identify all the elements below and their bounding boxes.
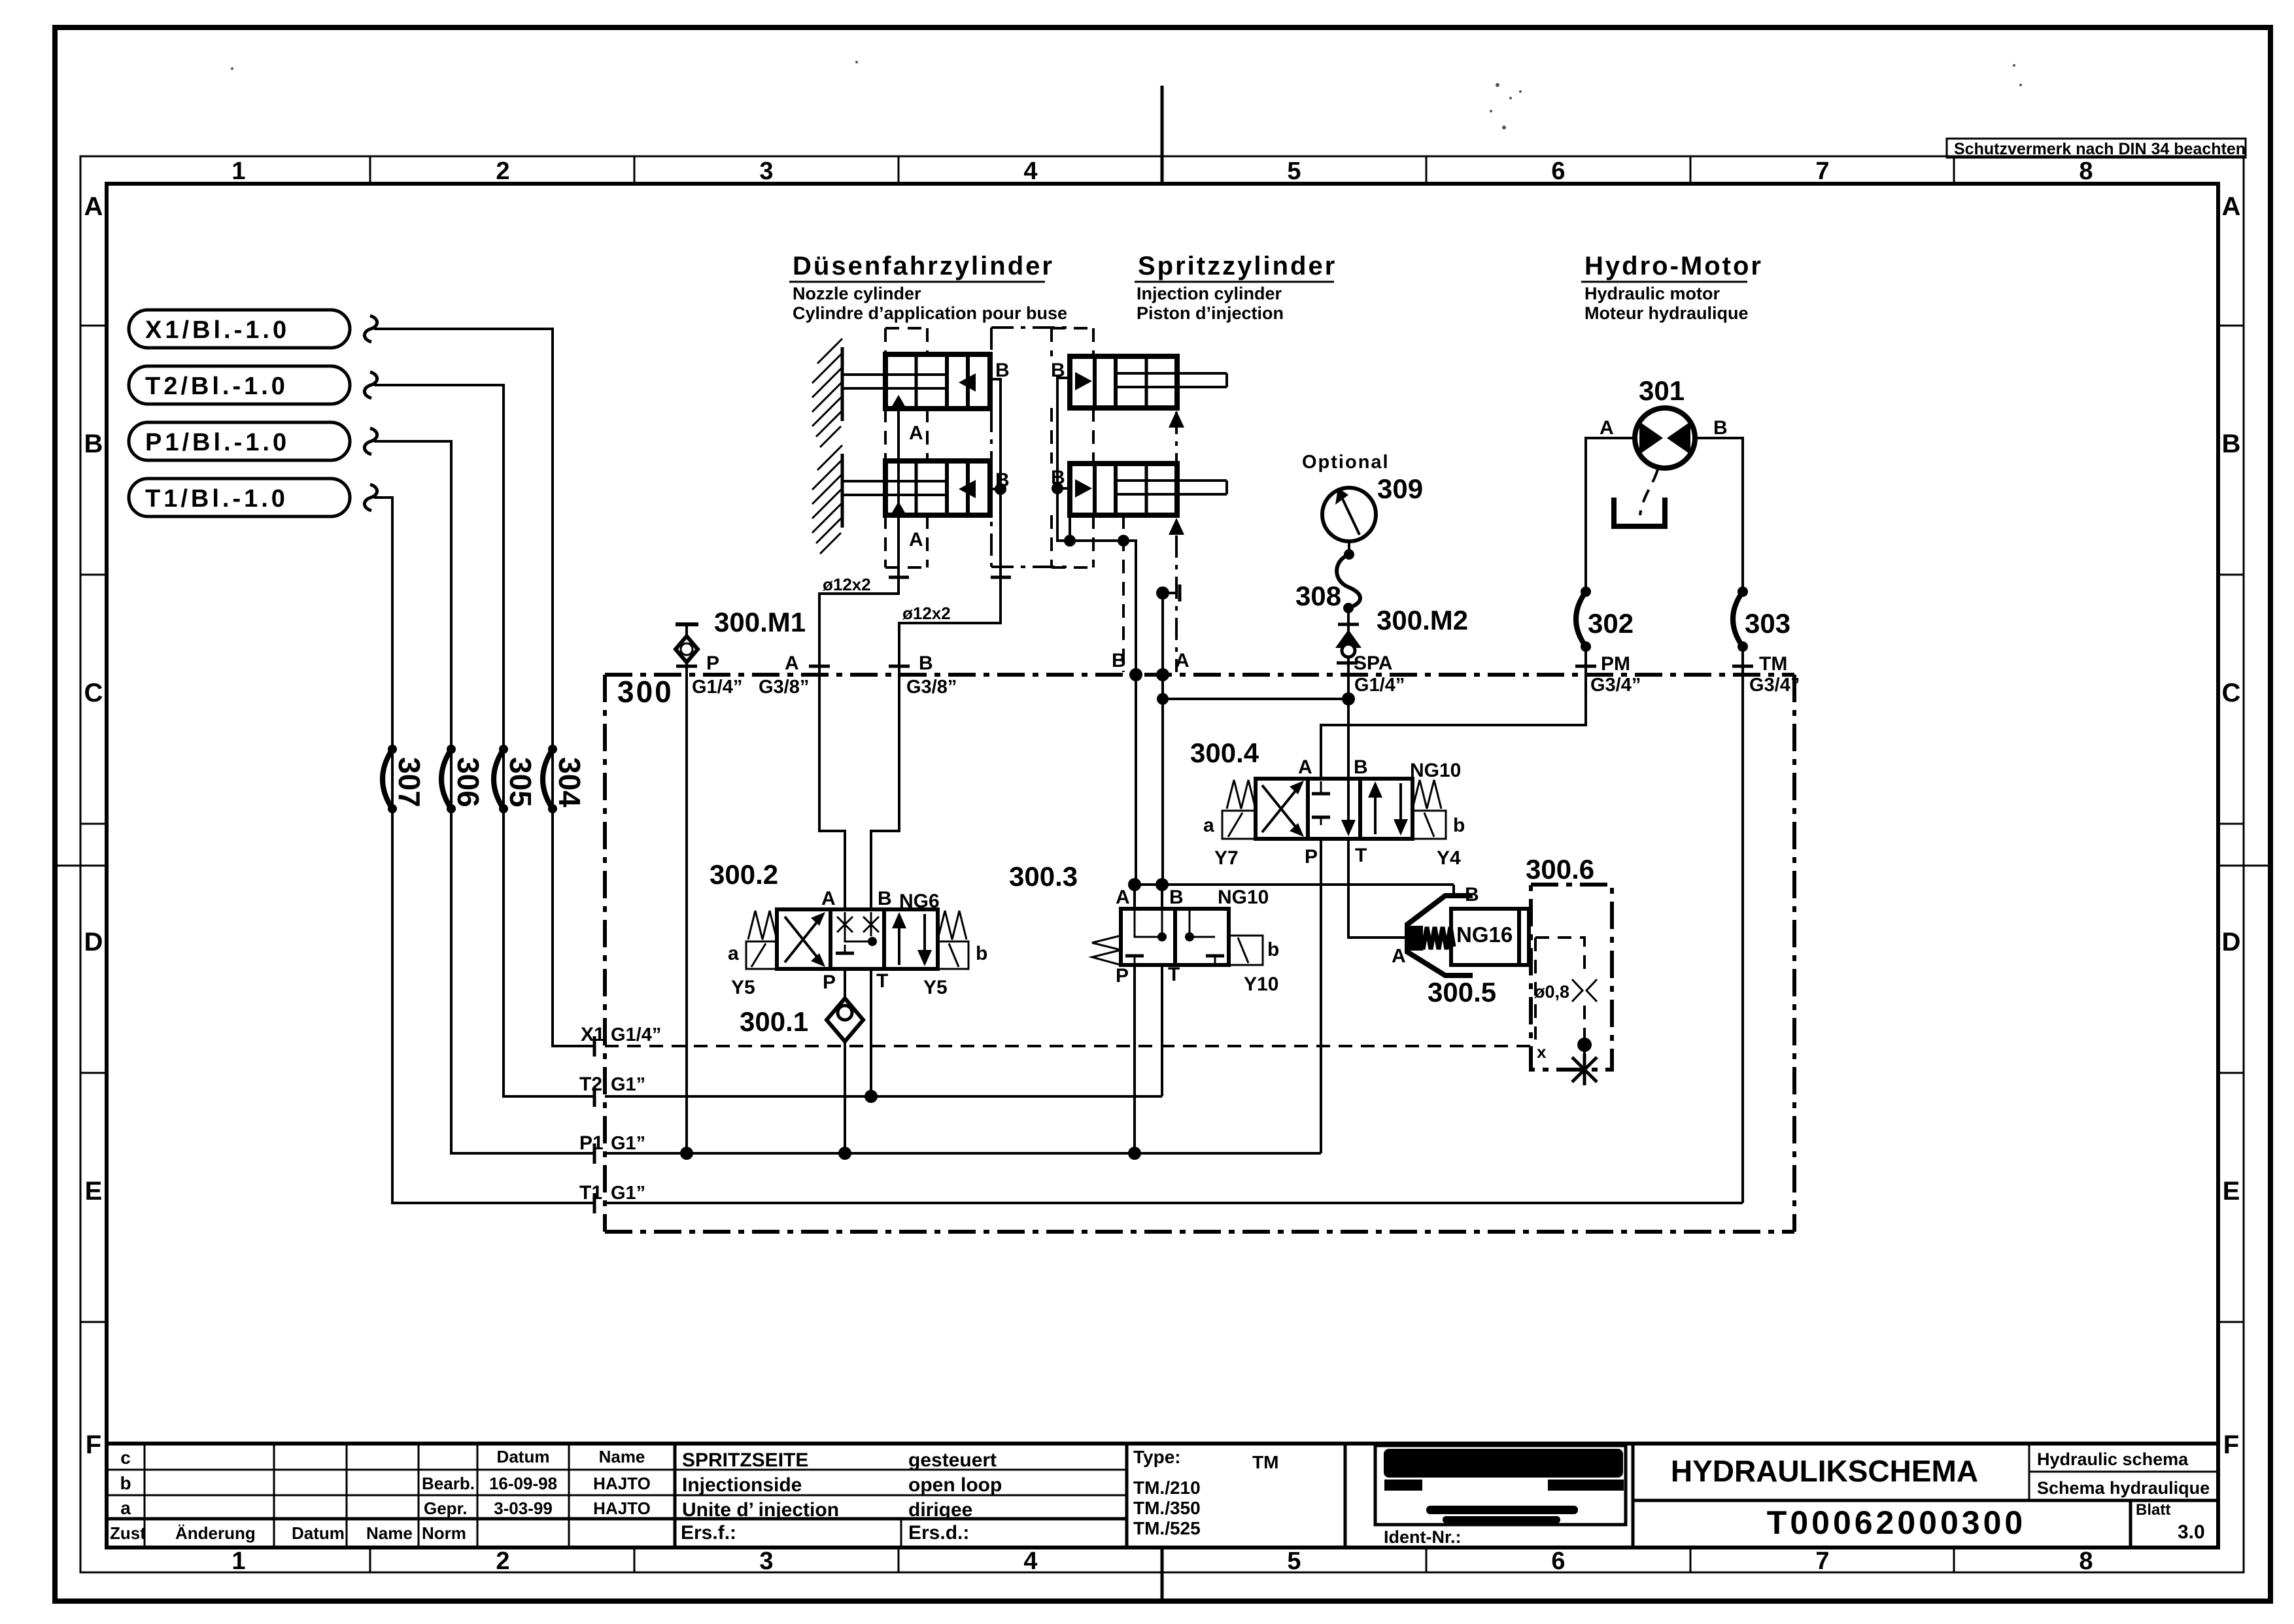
poppet outline 300.5 (1407, 896, 1473, 975)
svg-text:Ers.d.:: Ers.d.: (908, 1522, 969, 1544)
shut-off test valve 300.M1 (676, 622, 698, 626)
svg-text:ø12x2: ø12x2 (902, 603, 951, 623)
center marks (1161, 86, 1164, 184)
svg-text:Injectionside: Injectionside (682, 1474, 802, 1496)
svg-text:Y5: Y5 (731, 977, 755, 998)
port B injection side (1129, 668, 1142, 681)
body 300.5 (1451, 909, 1519, 965)
svg-text:Datum: Datum (292, 1523, 345, 1543)
wire gauge to hose (1348, 541, 1350, 554)
wire PM to valve A (1321, 675, 1586, 779)
svg-text:B: B (1051, 360, 1065, 381)
svg-text:A: A (1175, 650, 1190, 671)
plugged port symbol (1572, 1054, 1597, 1085)
wire 300.4 P to P1 rail (1320, 839, 1322, 1153)
port B (889, 665, 910, 668)
svg-text:A: A (1298, 756, 1312, 778)
wire 300.3 T to T2 rail (1161, 965, 1163, 1096)
node X1/Bl.-1.0 oval (129, 310, 350, 348)
svg-text:5: 5 (1287, 158, 1301, 185)
wire port A to valve A (819, 675, 845, 909)
svg-text:TM: TM (1759, 653, 1787, 675)
wire valve T to T2 rail (870, 969, 872, 1096)
svg-text:G1/4”: G1/4” (692, 677, 742, 698)
svg-text:300.M2: 300.M2 (1377, 605, 1468, 635)
svg-text:SPRITZSEITE: SPRITZSEITE (682, 1449, 808, 1471)
svg-text:TM./525: TM./525 (1133, 1518, 1201, 1538)
spring left 300.4 (1227, 780, 1256, 809)
svg-text:T: T (1168, 964, 1180, 985)
svg-text:HAJTO: HAJTO (593, 1474, 651, 1493)
port arrow B lower left cylinder (959, 480, 976, 498)
flow arrow A upper right cylinder (1169, 411, 1184, 428)
piston rod lower left cylinder (842, 480, 947, 482)
wire port B down (1135, 675, 1137, 885)
case drain dashed (1640, 469, 1658, 515)
svg-text:G3/4”: G3/4” (1590, 675, 1641, 696)
spring right 300.2 (938, 911, 967, 939)
column numbers bottom (231, 1548, 2093, 1575)
wall mount upper (812, 339, 842, 447)
svg-text:Spritzzylinder: Spritzzylinder (1138, 252, 1337, 280)
rail X1 pilot dashed (605, 1045, 1531, 1047)
svg-text:Norm: Norm (422, 1523, 466, 1543)
svg-text:Hydraulic schema: Hydraulic schema (2037, 1449, 2189, 1469)
test coupling 300.M2 (1335, 630, 1361, 648)
spring left 300.2 (748, 911, 777, 939)
svg-text:300.1: 300.1 (740, 1006, 808, 1037)
hose 303 (1733, 592, 1743, 647)
wire motor B to TM (1695, 438, 1743, 592)
inner pilot dashed path (1535, 938, 1584, 975)
wire 300.4 T to 300.5 A (1348, 839, 1406, 938)
solenoid a 300.2 (746, 941, 777, 969)
junction on X1 pilot (1577, 1038, 1592, 1052)
svg-text:b: b (976, 943, 987, 964)
solenoid b 300.4 (1412, 811, 1446, 839)
svg-text:b: b (1267, 939, 1279, 960)
svg-text:P: P (823, 972, 836, 993)
svg-text:ø12x2: ø12x2 (823, 575, 871, 594)
wire hose to coupling (1347, 608, 1350, 646)
orifice 0.8 (1572, 979, 1583, 1002)
wire port B to valve B (871, 675, 899, 909)
svg-text:B: B (1354, 756, 1368, 778)
flow arrow A lower right cylinder (1169, 518, 1184, 535)
svg-text:Optional: Optional (1302, 452, 1390, 473)
block 300.6 dash-dot box (1531, 885, 1612, 1070)
svg-text:4: 4 (1023, 1548, 1037, 1575)
hose 305 (494, 749, 504, 809)
svg-text:Gepr.: Gepr. (424, 1498, 467, 1518)
svg-text:b: b (120, 1473, 131, 1493)
svg-text:a: a (728, 943, 739, 964)
svg-text:A: A (785, 652, 799, 674)
svg-text:304: 304 (553, 757, 587, 807)
svg-text:A: A (909, 529, 923, 550)
wire 300.3 P to P1 rail (1133, 965, 1136, 1153)
rail P1 (605, 1152, 1321, 1155)
cylinder body upper right (1070, 356, 1177, 408)
svg-text:Schutzvermerk nach DIN 34 beac: Schutzvermerk nach DIN 34 beachten (1954, 140, 2246, 158)
wires into valve 300.3 (1133, 885, 1136, 909)
svg-text:4: 4 (1023, 158, 1037, 185)
svg-text:T00062000300: T00062000300 (1767, 1504, 2026, 1541)
svg-text:1: 1 (231, 158, 245, 185)
svg-text:300.4: 300.4 (1190, 737, 1259, 768)
port arrow B upper left cylinder (959, 373, 976, 392)
solenoid a 300.4 (1222, 811, 1256, 839)
pipe B left group (899, 379, 1001, 675)
logo cell (1375, 1446, 1626, 1525)
svg-text:X1: X1 (581, 1024, 605, 1045)
svg-text:303: 303 (1745, 608, 1790, 639)
port A injection side (1156, 668, 1169, 681)
center box symbols 300.4 (1320, 781, 1322, 794)
svg-text:Düsenfahrzylinder: Düsenfahrzylinder (793, 252, 1054, 280)
svg-text:A: A (84, 192, 103, 221)
svg-text:T2: T2 (579, 1074, 602, 1095)
svg-text:6: 6 (1551, 158, 1565, 185)
svg-text:A: A (1600, 417, 1614, 439)
svg-text:8: 8 (2079, 158, 2093, 185)
svg-text:A: A (1116, 887, 1130, 908)
machine boundary dash-dot (991, 328, 1072, 567)
svg-text:Y10: Y10 (1244, 973, 1278, 995)
wire T1 to manifold (374, 498, 594, 1203)
svg-text:B: B (1169, 887, 1184, 908)
svg-text:Ident-Nr.:: Ident-Nr.: (1384, 1527, 1462, 1547)
pipe A left group (819, 411, 899, 675)
inner drawing frame (107, 184, 2218, 1548)
svg-text:Unite d’ injection: Unite d’ injection (682, 1499, 839, 1521)
wire B rail down to poppet (1452, 885, 1455, 897)
svg-text:Hydraulic motor: Hydraulic motor (1584, 284, 1720, 303)
cylinder body lower left (885, 461, 990, 515)
svg-text:G1/4”: G1/4” (1354, 675, 1405, 696)
svg-text:B: B (919, 652, 933, 674)
wall mount lower (812, 445, 842, 554)
right cells (1632, 1444, 1635, 1548)
title block outer top line (107, 1442, 2218, 1446)
svg-text:G3/8”: G3/8” (759, 677, 809, 698)
port arrow B upper right cylinder (1075, 372, 1092, 390)
svg-text:8: 8 (2079, 1548, 2093, 1575)
svg-text:open loop: open loop (908, 1474, 1002, 1496)
node T2/Bl.-1.0 oval (129, 366, 350, 404)
svg-text:HYDRAULIKSCHEMA: HYDRAULIKSCHEMA (1671, 1454, 1978, 1488)
svg-text:300: 300 (617, 675, 674, 709)
pipe B right group (1057, 378, 1136, 675)
svg-text:T1/Bl.-1.0: T1/Bl.-1.0 (145, 485, 288, 513)
hose 308 (1337, 554, 1360, 608)
svg-text:2: 2 (496, 158, 509, 185)
svg-text:P1/Bl.-1.0: P1/Bl.-1.0 (145, 429, 290, 456)
svg-text:Zust: Zust (110, 1523, 146, 1543)
svg-text:dirigee: dirigee (908, 1499, 972, 1521)
svg-text:7: 7 (1815, 158, 1829, 185)
svg-text:B: B (995, 469, 1010, 491)
hose arcs 304-307 on riser wires (383, 745, 587, 813)
solenoid b 300.2 (938, 941, 968, 969)
port arrow A lower left cylinder (889, 501, 908, 517)
svg-text:G1/4”: G1/4” (611, 1024, 661, 1045)
rail T1 (605, 1202, 1743, 1204)
svg-text:307: 307 (392, 757, 426, 807)
svg-text:P: P (1305, 846, 1318, 868)
svg-text:Name: Name (366, 1523, 413, 1543)
wire SPA junction to injection A line (1163, 698, 1348, 700)
svg-text:SPA: SPA (1354, 652, 1392, 674)
parallel arrows box3 300.4 (1374, 785, 1377, 834)
svg-text:3.0: 3.0 (2178, 1521, 2205, 1543)
svg-text:B: B (995, 360, 1010, 381)
svg-text:G3/8”: G3/8” (906, 677, 957, 698)
wire check valve to P1 rail (844, 1041, 846, 1153)
svg-text:Schema hydraulique: Schema hydraulique (2037, 1478, 2210, 1498)
svg-text:b: b (1453, 815, 1465, 836)
svg-text:3: 3 (759, 1548, 773, 1575)
svg-text:NG16: NG16 (1456, 922, 1513, 947)
drain line right group (1122, 515, 1125, 672)
port arrow A upper left cylinder (889, 395, 908, 411)
wire port A down (1161, 675, 1164, 885)
seat block 300.5 (1406, 926, 1423, 951)
svg-text:D: D (84, 928, 103, 956)
svg-text:Name: Name (599, 1447, 645, 1466)
svg-text:300.5: 300.5 (1428, 977, 1496, 1007)
parallel arrows box3 300.2 (898, 915, 900, 965)
svg-text:2: 2 (496, 1548, 509, 1575)
wire P1 to manifold (374, 441, 594, 1153)
svg-text:gesteuert: gesteuert (908, 1449, 997, 1471)
column numbers top (231, 158, 2093, 185)
row letters left (84, 192, 103, 1459)
svg-text:B: B (1112, 650, 1126, 671)
wire SPA junction to valve B (1347, 675, 1350, 779)
svg-text:C: C (84, 679, 103, 707)
node T1/Bl.-1.0 oval (129, 479, 350, 516)
svg-text:TM./350: TM./350 (1133, 1498, 1201, 1518)
wire motor A to PM (1586, 438, 1635, 592)
revision table (107, 1470, 1127, 1495)
svg-text:3-03-99: 3-03-99 (494, 1498, 553, 1518)
svg-text:Moteur hydraulique: Moteur hydraulique (1584, 303, 1749, 323)
break symbol T2 (364, 372, 377, 398)
svg-text:X1/Bl.-1.0: X1/Bl.-1.0 (145, 316, 290, 344)
Schutzvermerk box (1947, 139, 2246, 158)
svg-text:Piston d’injection: Piston d’injection (1137, 303, 1284, 323)
piston rod upper left cylinder (842, 373, 947, 376)
svg-text:F: F (86, 1430, 101, 1459)
break symbol T1 (364, 484, 377, 511)
svg-text:PM: PM (1601, 653, 1630, 675)
svg-text:300.2: 300.2 (710, 859, 778, 890)
break symbol X1 (364, 316, 377, 342)
svg-text:a: a (1203, 815, 1214, 836)
motor 301 (1635, 408, 1695, 468)
spring coil 300.5 (1411, 927, 1454, 949)
svg-text:A: A (821, 888, 836, 909)
spring right 300.4 (1412, 780, 1441, 809)
svg-text:G3/4”: G3/4” (1749, 675, 1800, 696)
side ruler ticks (80, 326, 2244, 1322)
internals box2 300.3 (1190, 909, 1215, 937)
svg-text:ø0,8: ø0,8 (1534, 982, 1569, 1002)
wire X1 to manifold (374, 329, 594, 1046)
svg-text:TM./210: TM./210 (1133, 1478, 1201, 1498)
svg-text:B: B (1713, 417, 1728, 439)
dashed stroke envelope right group (1052, 328, 1093, 567)
valve 300.4 body (1256, 779, 1412, 839)
svg-text:Blatt: Blatt (2136, 1501, 2170, 1519)
hose 304 (543, 749, 553, 809)
center box symbols 300.2 (844, 912, 846, 936)
wire T2 to manifold (374, 385, 594, 1096)
svg-text:7: 7 (1815, 1548, 1829, 1575)
break symbol P1 (364, 428, 377, 454)
svg-text:Hydro-Motor: Hydro-Motor (1584, 252, 1763, 280)
hose 307 (383, 749, 392, 809)
check valve 300.1 (827, 998, 863, 1041)
svg-text:HAJTO: HAJTO (593, 1498, 651, 1518)
manifold 300 dash-dot box (605, 673, 1794, 677)
spring left 300.3 (1092, 936, 1121, 965)
svg-text:3: 3 (759, 158, 773, 185)
svg-text:F: F (2223, 1430, 2239, 1459)
svg-text:T: T (1355, 845, 1367, 866)
svg-text:309: 309 (1377, 473, 1423, 504)
svg-text:Injection cylinder: Injection cylinder (1137, 284, 1282, 303)
svg-text:B: B (878, 888, 892, 909)
svg-text:x: x (1537, 1042, 1547, 1062)
cylinder body lower right (1070, 464, 1177, 515)
crossed arrows box1 300.2 (785, 917, 821, 962)
svg-text:T: T (876, 970, 888, 992)
svg-text:E: E (2223, 1177, 2240, 1206)
hose 302 (1576, 592, 1586, 647)
svg-text:C: C (2222, 679, 2241, 707)
svg-text:5: 5 (1287, 1548, 1301, 1575)
svg-text:6: 6 (1551, 1548, 1565, 1575)
solenoid b 300.3 (1229, 936, 1263, 965)
svg-text:Type:: Type: (1133, 1447, 1181, 1467)
svg-text:NG10: NG10 (1410, 760, 1461, 781)
svg-text:300.6: 300.6 (1526, 854, 1594, 885)
hose 306 (441, 749, 451, 809)
svg-text:Bearb.: Bearb. (422, 1474, 475, 1493)
svg-text:308: 308 (1295, 581, 1341, 611)
port arrow B lower right cylinder (1075, 479, 1092, 498)
svg-text:302: 302 (1588, 608, 1634, 639)
bottom ruler ticks (370, 1548, 1954, 1572)
svg-text:A: A (2222, 192, 2241, 221)
valve 300.3 body (1121, 909, 1229, 965)
pipe A right group (1161, 593, 1164, 675)
svg-text:G1”: G1” (611, 1074, 645, 1095)
svg-text:NG10: NG10 (1218, 887, 1269, 908)
rail to pilot valve 300.5 (1135, 883, 1454, 886)
svg-text:D: D (2222, 928, 2241, 956)
svg-text:A: A (909, 422, 923, 444)
svg-text:T1: T1 (579, 1182, 602, 1204)
pressure gauge 309 (1322, 488, 1376, 541)
svg-text:A: A (1392, 945, 1406, 967)
svg-text:16-09-98: 16-09-98 (489, 1474, 557, 1493)
wire TM down to T1 (1741, 675, 1744, 1203)
crossed arrows box1 300.4 (1262, 785, 1300, 832)
svg-text:G1”: G1” (611, 1183, 645, 1204)
svg-text:Datum: Datum (497, 1447, 550, 1466)
piston rod lower right cylinder (1116, 479, 1227, 482)
scan noise specks (231, 61, 2022, 129)
wire valve P down through check (844, 969, 846, 998)
port A (809, 665, 830, 668)
svg-text:a: a (120, 1498, 131, 1518)
valve 300.2 body (777, 909, 938, 969)
svg-text:B: B (1051, 467, 1065, 488)
svg-text:Änderung: Änderung (175, 1523, 256, 1543)
row letters right (2222, 192, 2241, 1459)
svg-text:G1”: G1” (611, 1133, 645, 1154)
svg-text:Nozzle cylinder: Nozzle cylinder (793, 284, 921, 303)
svg-text:Y4: Y4 (1437, 847, 1461, 869)
pilot centerline A right group (1175, 412, 1178, 672)
svg-text:TM: TM (1252, 1452, 1278, 1472)
svg-text:Y5: Y5 (923, 977, 948, 998)
svg-text:T2/Bl.-1.0: T2/Bl.-1.0 (145, 373, 288, 400)
rail T2 (605, 1095, 1162, 1098)
svg-text:c: c (120, 1447, 131, 1468)
top ruler ticks (370, 156, 1954, 184)
svg-text:300.M1: 300.M1 (714, 607, 806, 637)
tank symbol (1614, 498, 1665, 526)
svg-text:B: B (2222, 430, 2241, 458)
svg-text:300.3: 300.3 (1009, 861, 1078, 892)
wire port P down to P1 (685, 675, 688, 1153)
svg-text:Ers.f.:: Ers.f.: (681, 1522, 736, 1544)
svg-text:Y7: Y7 (1214, 847, 1239, 869)
svg-text:305: 305 (504, 757, 538, 807)
internals box1 300.3 (1135, 909, 1162, 937)
piston rod upper right cylinder (1116, 372, 1227, 375)
svg-text:301: 301 (1639, 375, 1685, 406)
svg-text:P: P (706, 652, 719, 674)
svg-text:Cylindre d’application pour bu: Cylindre d’application pour buse (793, 303, 1067, 323)
svg-text:B: B (84, 430, 103, 458)
svg-text:P: P (1116, 965, 1129, 987)
node P1/Bl.-1.0 oval (129, 422, 350, 460)
cylinder body upper left (885, 354, 990, 409)
svg-text:P1: P1 (579, 1132, 604, 1154)
svg-text:1: 1 (231, 1548, 245, 1575)
svg-text:306: 306 (451, 757, 485, 807)
dashed stroke envelope left group (885, 328, 927, 567)
svg-text:E: E (85, 1177, 103, 1206)
